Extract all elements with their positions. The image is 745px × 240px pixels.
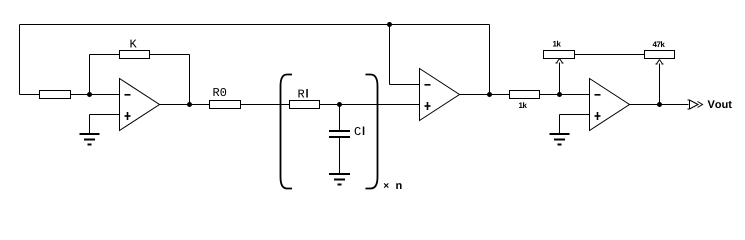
node B junction dot xyxy=(337,102,342,107)
wire capacitor CI to ground xyxy=(339,138,341,174)
node U2 output junction dot xyxy=(487,92,492,97)
label 1k top xyxy=(553,41,561,47)
wire U3 non-inverting input to ground xyxy=(560,114,590,116)
op-amp U2 xyxy=(420,69,460,121)
wire U2 output xyxy=(460,94,490,96)
op-amp U3 plus sign xyxy=(595,112,601,120)
label 47k xyxy=(653,41,665,47)
label K xyxy=(130,40,136,48)
op-amp U2 minus sign xyxy=(425,84,431,86)
wire left lead of resistor K xyxy=(90,54,120,56)
wire U1 output xyxy=(160,104,190,106)
op-amp U2 plus sign xyxy=(425,102,431,110)
arrow head on 47k resistor tap xyxy=(656,60,664,65)
left bracket of repeated RC section xyxy=(281,75,293,189)
label RI xyxy=(298,90,304,98)
wire U3 output xyxy=(630,104,660,106)
wire node C up to resistor 1k top (wiper arrow) xyxy=(559,63,561,95)
wire R0 to RI xyxy=(241,104,290,106)
node C junction dot xyxy=(557,92,562,97)
arrow head on 1k top resistor tap xyxy=(556,59,564,64)
op-amp U1 plus sign xyxy=(125,112,131,120)
wire global feedback top rail xyxy=(20,24,490,26)
right bracket of repeated RC section xyxy=(366,75,378,189)
wire U3 output node to port Vout xyxy=(660,104,689,106)
wire RI to node B xyxy=(320,104,340,106)
wire left vertical of feedback rail xyxy=(19,25,21,95)
wire rail to input resistor xyxy=(20,94,40,96)
resistor 47k body xyxy=(645,51,675,59)
ground symbol at U1 non-inverting input xyxy=(80,134,100,145)
resistor K body xyxy=(120,51,150,59)
wire U1 output node to resistor R0 xyxy=(190,104,210,106)
wire top rail down to U2 output node xyxy=(489,25,491,95)
wire right lead of resistor K xyxy=(150,54,190,56)
resistor R_in (unlabeled input resistor) xyxy=(40,91,71,99)
wire node B down to capacitor CI xyxy=(339,105,341,131)
wire U2 inverting input xyxy=(390,84,420,86)
wire input resistor to node A xyxy=(71,94,90,96)
label R0 xyxy=(213,88,226,96)
label CI xyxy=(355,127,361,135)
ground symbol at U3 non-inverting input xyxy=(550,134,570,145)
wire 47k (wiper arrow) down to U3 output node xyxy=(659,64,661,105)
op-amp U3 minus sign xyxy=(595,94,601,96)
wire 1k top to 47k top xyxy=(575,54,645,56)
node A junction dot xyxy=(87,92,92,97)
wire node B to op-amp U2 non-inverting input xyxy=(340,104,420,106)
wire ground drop U1 xyxy=(89,115,91,134)
wire U2 inverting input up to top rail xyxy=(389,25,391,85)
op-amp U3 xyxy=(590,79,630,131)
label 1k series xyxy=(519,102,527,108)
wire 1k series to op-amp U3 inverting input through node C xyxy=(540,94,590,96)
op-amp U1 xyxy=(120,79,160,131)
output port symbol Vout xyxy=(688,100,703,109)
node top rail tap junction dot xyxy=(387,22,392,27)
wire feedback K down to U1 output node xyxy=(189,55,191,105)
wire U1 non-inverting input to ground xyxy=(90,114,120,116)
op-amp U1 minus sign xyxy=(125,94,131,96)
wire node A up to resistor K xyxy=(89,55,91,95)
wire ground drop U3 xyxy=(559,115,561,134)
capacitor CI xyxy=(329,131,350,137)
ground symbol below capacitor CI xyxy=(329,174,350,185)
label x n (repeat count) xyxy=(384,183,389,188)
wire U2 output node to resistor 1k series xyxy=(490,94,510,96)
resistor R0 body xyxy=(210,101,241,109)
label Vout xyxy=(708,100,732,108)
resistor RI body xyxy=(290,101,320,109)
wire node A to op-amp U1 inverting input xyxy=(90,94,120,96)
resistor 1k series body xyxy=(510,91,540,99)
node U1 output junction dot xyxy=(187,102,192,107)
node U3 output junction dot xyxy=(657,102,662,107)
resistor 1k top body xyxy=(544,51,575,59)
